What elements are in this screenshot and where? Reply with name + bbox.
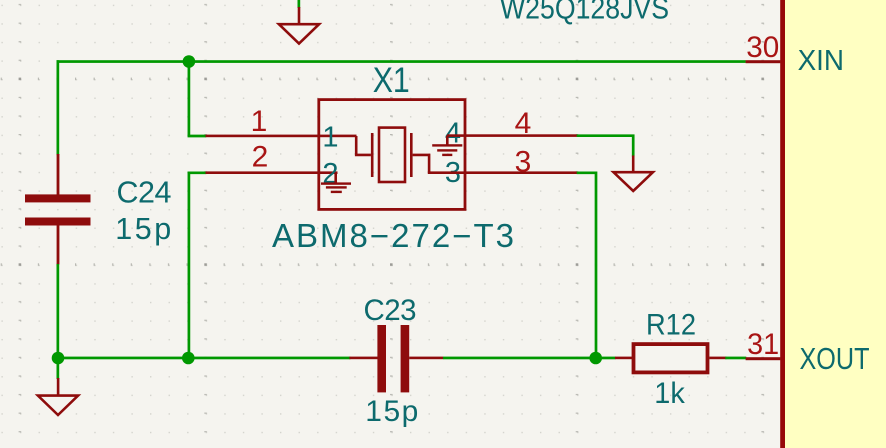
pin X1-3 — [428, 171, 578, 174]
svg-text:1: 1 — [251, 105, 268, 138]
svg-text:1k: 1k — [654, 377, 685, 410]
pin C24-2 — [57, 226, 60, 265]
wire pin2 to rail — [189, 173, 206, 358]
wire top rail — [57, 60, 746, 63]
pin X1-2 — [206, 171, 338, 174]
earth symbol at pin 4 — [432, 136, 462, 156]
capacitor C23 — [377, 325, 409, 392]
svg-text:15p: 15p — [115, 212, 171, 246]
wire pin3 to rail — [577, 173, 596, 358]
junction mid bottom — [182, 352, 195, 365]
pin R12-1 — [615, 357, 632, 360]
ground bottom-left — [38, 378, 78, 415]
IC pin 31 XOUT — [746, 357, 781, 360]
junction right bottom — [589, 352, 602, 365]
wire bottom rail right — [443, 357, 616, 360]
wire left vertical upper — [57, 60, 60, 155]
pin X1-1 — [206, 135, 357, 138]
svg-text:R12: R12 — [646, 309, 696, 342]
pin C23-1 — [349, 357, 378, 360]
pin C24-1 — [57, 154, 60, 195]
svg-text:2: 2 — [252, 141, 269, 174]
pin C23-2 — [409, 357, 443, 360]
resistor R12 — [634, 344, 708, 372]
crystal left lead — [356, 136, 371, 155]
crystal X1 body box — [319, 100, 465, 210]
svg-text:3: 3 — [515, 146, 532, 179]
svg-text:30: 30 — [746, 31, 779, 64]
svg-text:4: 4 — [515, 107, 532, 140]
wire left vertical lower — [57, 264, 60, 379]
svg-text:X1: X1 — [373, 61, 410, 100]
junction left bottom — [52, 352, 65, 365]
crystal element — [371, 128, 413, 182]
svg-text:XIN: XIN — [798, 45, 844, 77]
svg-text:15p: 15p — [365, 395, 418, 428]
svg-text:1: 1 — [322, 122, 338, 154]
wire pin4 to ground — [577, 136, 634, 157]
wire R12 to chip pin 31 — [725, 357, 746, 360]
svg-text:XOUT: XOUT — [800, 341, 870, 376]
svg-text:W25Q128JVS: W25Q128JVS — [500, 0, 669, 26]
pin R12-2 — [709, 357, 726, 360]
ground right (pin 4) — [614, 156, 653, 192]
IC pin 30 XIN — [746, 60, 781, 63]
capacitor C24 — [25, 194, 91, 225]
pin X1-4 — [447, 134, 578, 137]
crystal right lead — [413, 155, 430, 173]
junction top — [183, 55, 196, 68]
svg-text:C24: C24 — [117, 175, 172, 209]
wire junction to pin1 — [189, 62, 206, 137]
ground top (from flash GND) — [279, 0, 319, 44]
svg-text:ABM8−272−T3: ABM8−272−T3 — [272, 217, 514, 254]
earth symbol at pin 2 — [321, 173, 351, 193]
svg-text:31: 31 — [747, 328, 779, 361]
IC U? body (W25Q128JVS) yellow block — [780, 0, 886, 448]
wire bottom rail left — [57, 357, 351, 360]
svg-text:C23: C23 — [364, 294, 417, 327]
